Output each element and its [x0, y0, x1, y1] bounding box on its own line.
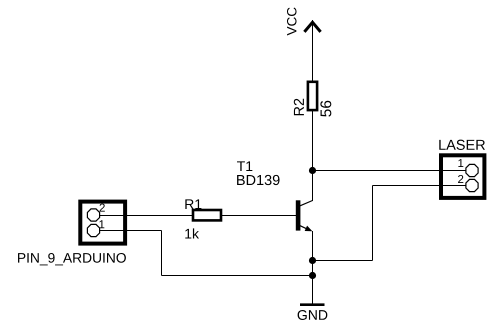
label T1	[237, 161, 252, 171]
wire to ground node	[162, 275, 313, 277]
resistor R1 body	[193, 210, 221, 220]
node collector junction	[309, 167, 316, 174]
value BD139	[237, 175, 279, 185]
connector LASER box	[441, 155, 484, 198]
value 1k	[185, 228, 199, 238]
wire pin 1 vertical drop	[161, 231, 163, 276]
transistor T1	[296, 200, 313, 231]
wire to emitter node	[313, 260, 373, 262]
wire collector node to LASER pin 1	[313, 170, 473, 172]
pin number 1	[99, 220, 104, 228]
connector PIN_9_ARDUINO box	[80, 202, 125, 244]
resistor R2 body	[308, 82, 317, 110]
pin number 2	[100, 204, 105, 212]
pin number 1	[458, 159, 463, 167]
wire emitter to GND	[312, 231, 314, 304]
pad 2 of LASER	[466, 179, 478, 191]
wire base to R1	[222, 215, 296, 217]
pad 1 of LASER	[466, 164, 478, 176]
label LASER	[439, 140, 485, 150]
net label GND	[298, 310, 328, 320]
pin number 2	[458, 175, 463, 183]
label R1	[185, 199, 201, 209]
label PIN_9_ARDUINO	[18, 253, 126, 265]
ground GND bar	[300, 303, 325, 306]
pad 1 of PIN_9_ARDUINO	[87, 224, 99, 236]
pad 2 of PIN_9_ARDUINO	[87, 209, 99, 221]
label R2	[294, 99, 304, 116]
net label VCC	[287, 8, 297, 36]
wire LASER pin 2 horizontal	[373, 185, 473, 187]
wire connector pin 1 horizontal	[94, 230, 162, 232]
value 56	[320, 101, 331, 117]
power symbol VCC arrow	[304, 22, 320, 32]
wire VCC to R2	[312, 20, 314, 81]
wire connector pin 2 to R1	[94, 215, 192, 217]
wire LASER pin 2 vertical drop	[372, 186, 374, 261]
node emitter junction lower	[309, 272, 316, 279]
node emitter junction upper	[309, 257, 316, 264]
wire R2 to collector node	[312, 111, 314, 201]
